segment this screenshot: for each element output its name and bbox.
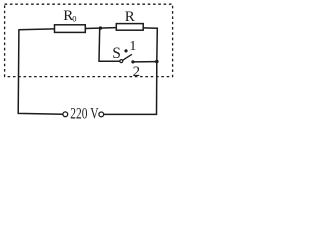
terminal right	[99, 112, 104, 117]
svg-text:2: 2	[133, 64, 141, 80]
node junction right	[155, 60, 159, 64]
wire: R0 to R	[85, 27, 116, 30]
switch lever	[123, 54, 132, 60]
wire: contact 2 to right vertical	[133, 61, 157, 63]
wire: branch down from junction	[99, 28, 120, 61]
wire: top left to R0	[18, 28, 54, 31]
terminal left	[63, 112, 68, 117]
resistor R0	[55, 25, 86, 33]
svg-text:S: S	[112, 45, 121, 62]
svg-text:0: 0	[72, 13, 76, 23]
wire: left vertical + bottom-left	[18, 30, 63, 114]
wire: R right to top-right corner and down	[104, 28, 158, 115]
dashed boundary box	[5, 4, 173, 76]
svg-text:1: 1	[129, 39, 136, 54]
svg-text:R: R	[125, 9, 135, 25]
contact 2	[131, 60, 134, 63]
switch S pivot	[120, 60, 123, 63]
node junction left	[99, 26, 102, 29]
contact 1	[124, 49, 127, 52]
svg-text:220 V: 220 V	[70, 106, 99, 122]
resistor R	[116, 24, 143, 31]
